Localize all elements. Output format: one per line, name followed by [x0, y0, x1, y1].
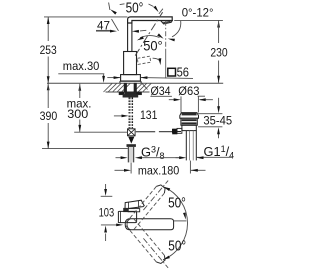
- dimension dia63 right arrow: [199, 98, 213, 101]
- svg-text:50°: 50°: [143, 37, 163, 53]
- svg-text:56: 56: [177, 64, 189, 79]
- drain lower body: [182, 125, 196, 130]
- dimension 47 right arrow: [132, 30, 146, 33]
- thread G3/8 dim line: [116, 156, 180, 159]
- dimension 230 arrow top: [217, 21, 220, 44]
- drain extension line right: [197, 96, 199, 112]
- countertop hatching right: [134, 83, 152, 92]
- hose crimp collar: [127, 144, 136, 147]
- square symbol 56: [168, 68, 176, 76]
- countertop bottom line left segment: [106, 91, 150, 93]
- dimension 131 label: [140, 108, 157, 122]
- mounting nut: [119, 92, 141, 97]
- hose end reference line: [42, 148, 128, 150]
- faucet body: [124, 52, 137, 75]
- svg-text:50°: 50°: [168, 237, 186, 254]
- svg-text:35-45: 35-45: [203, 113, 232, 127]
- flexible hose G3/8 tube: [128, 147, 133, 162]
- dimension max180 ext left: [130, 163, 132, 174]
- dimension 47 left arrow: [96, 30, 117, 33]
- dimension max300 line lower: [79, 120, 81, 132]
- dimension 390 arrow bottom: [47, 142, 50, 149]
- dimension max180 ext right: [189, 161, 191, 174]
- angle 50 mid arc: [140, 36, 160, 38]
- dimension max300 label line2: [67, 107, 88, 121]
- dimension max300 label line1: [67, 97, 92, 111]
- dimension max180 left arrow: [115, 169, 132, 172]
- faucet spout top bar: [128, 17, 173, 23]
- angle 50 plan upper label: [168, 195, 186, 212]
- dimension 253 line lower: [47, 57, 49, 84]
- angle 50 mid right arrowhead: [157, 33, 163, 38]
- lever raised axis dash-dot diagonal: [135, 12, 162, 55]
- plan view rotation arc: [163, 187, 188, 260]
- svg-text:G3/8: G3/8: [141, 145, 165, 162]
- threaded rod upper part: [129, 98, 132, 114]
- faucet base escutcheon: [120, 75, 141, 84]
- dimension 47 label: [97, 19, 110, 33]
- dimension 390 line lower: [47, 123, 49, 149]
- dimension 230 arrow bottom: [217, 76, 220, 83]
- dimension max30 arrow: [102, 74, 105, 83]
- dimension square56 line: [107, 76, 193, 79]
- drain extension line left: [180, 96, 182, 112]
- plan view spout tip: [125, 200, 144, 209]
- thread G3/8 label: [141, 145, 165, 162]
- svg-text:50°: 50°: [126, 0, 144, 16]
- drain body with o-rings: [181, 118, 197, 125]
- svg-text:50°: 50°: [168, 195, 186, 212]
- svg-text:0°-12°: 0°-12°: [182, 5, 214, 19]
- countertop top line: [47, 82, 223, 84]
- top extension line: [44, 16, 127, 18]
- plan view lever phantom lower (dashed): [126, 219, 164, 262]
- dimension 253 line upper: [47, 17, 49, 41]
- svg-text:300: 300: [67, 107, 88, 121]
- plan view lower lever axis dash: [143, 238, 168, 267]
- dimension 47 underline: [96, 29, 112, 31]
- angle 50 top right arrow: [149, 4, 159, 12]
- countertop hatching left: [104, 83, 131, 92]
- plan view body: [118, 211, 136, 222]
- plan view lever bar: [125, 219, 173, 230]
- dimension max180 label: [138, 163, 179, 177]
- plan view lever phantom upper end cap: [156, 185, 165, 193]
- dimension 253 arrow bottom: [47, 76, 50, 83]
- svg-text:390: 390: [40, 109, 58, 123]
- angle 50 plan lower label: [168, 237, 186, 254]
- angle 0-12 label: [182, 5, 214, 19]
- aerator axis dash-dot line: [165, 21, 167, 79]
- dimension 103 ext top line: [101, 195, 113, 197]
- svg-text:Ø63: Ø63: [178, 84, 199, 98]
- angle 50 mid left arrowhead: [137, 36, 144, 40]
- plan arc arrowhead at tick upper: [183, 213, 186, 220]
- plan view aerator detail: [123, 208, 140, 212]
- angle 50 top left tick: [109, 3, 110, 10]
- dimension 103 label: [99, 205, 115, 219]
- mounting washer under counter: [119, 92, 141, 95]
- plan arc arrowhead bottom: [163, 256, 170, 260]
- dimension 35-45 line upper: [217, 98, 220, 114]
- faucet shank in counter section: [124, 83, 136, 92]
- svg-text:103: 103: [99, 205, 115, 219]
- dimension 103 arrow bottom: [104, 226, 107, 242]
- svg-text:253: 253: [40, 43, 57, 57]
- dimension 35-45 line lower: [217, 127, 220, 138]
- dimension 230 label: [210, 45, 227, 59]
- connection nipple black cone: [128, 137, 134, 144]
- dimension max30 label: [63, 59, 100, 73]
- dimension 390 label: [40, 109, 58, 123]
- dimension 35-45 extension upper: [197, 113, 222, 115]
- svg-text:max.30: max.30: [63, 59, 100, 73]
- angle 0-12 underline extension: [174, 19, 223, 21]
- dimension dia34 label: [150, 84, 172, 98]
- dimension max300 arrow top: [78, 84, 81, 98]
- svg-text:131: 131: [140, 108, 157, 122]
- pop-up rod knob: [172, 129, 181, 135]
- plan view upper lever axis dash: [143, 181, 168, 210]
- svg-text:230: 230: [210, 45, 227, 59]
- angle 0-12 arc: [172, 21, 181, 37]
- svg-text:G11/4: G11/4: [204, 144, 235, 161]
- dimension 131 leader arrow: [114, 115, 129, 118]
- threaded rod lower part: [129, 116, 132, 129]
- dimension 230 line lower: [218, 61, 220, 83]
- dimension 253 arrow top: [47, 17, 50, 24]
- svg-text:Ø34: Ø34: [151, 84, 171, 98]
- oblique extension from spout corner: [112, 19, 119, 31]
- lever rotation arc mid with arrow: [153, 58, 162, 65]
- plan view lever phantom upper (dashed): [126, 186, 164, 229]
- thread G1 1/4 label: [204, 144, 235, 161]
- dimension 103 arrow top: [104, 184, 107, 196]
- dimension max30 underline: [58, 73, 104, 75]
- dimension 253 label: [40, 43, 57, 57]
- dimension 56 label: [177, 64, 189, 79]
- angle 50 top label: [126, 0, 144, 16]
- countertop bottom line right stub: [198, 95, 205, 97]
- faucet spout aerator tip: [161, 21, 173, 24]
- drain rod fitting: [172, 128, 182, 133]
- dimension dia34 leader: [140, 81, 147, 89]
- dimension 103 bottom line with arrow: [101, 224, 123, 227]
- pop-up rod horizontal: [136, 131, 172, 133]
- dimension dia63 left arrow: [169, 98, 181, 101]
- thread G1 1/4 dim line: [176, 156, 234, 159]
- dimension 390 arrow top: [47, 83, 50, 108]
- plan arc arrowhead top: [163, 187, 170, 191]
- drain tailpipe G1 1/4: [186, 131, 196, 161]
- svg-text:max.180: max.180: [138, 163, 179, 177]
- dimension max300 arrow bottom: [78, 125, 81, 132]
- angle 50 top right tick: [159, 9, 163, 14]
- plan zero reference tick: [174, 220, 187, 222]
- dimension 35-45 label: [203, 113, 232, 127]
- dimension dia63 label: [178, 84, 199, 98]
- angle 50 top left arrow: [110, 4, 124, 15]
- hose connection cross fitting: [128, 129, 136, 136]
- hose connection reference line: [74, 131, 127, 133]
- faucet riser tube: [128, 23, 132, 52]
- plan view lever phantom lower end cap: [156, 255, 165, 263]
- angle 50 mid label: [143, 37, 163, 53]
- dimension max180 right arrow: [191, 169, 206, 172]
- drain flange: [180, 113, 199, 119]
- dimension 35-45 extension lower: [198, 126, 222, 128]
- lever phantom position (dashed): [137, 56, 150, 64]
- angle 0-12 arc arrowhead: [168, 39, 175, 42]
